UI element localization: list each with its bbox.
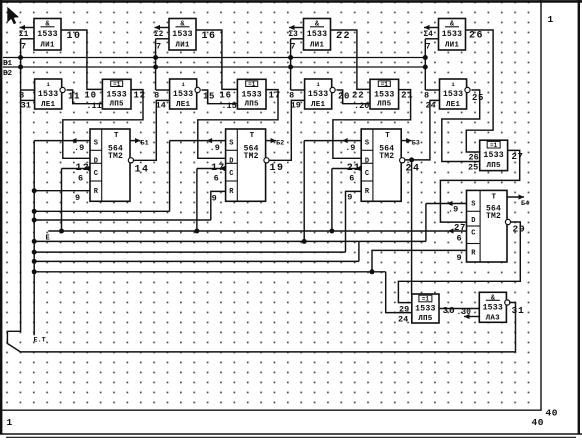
svg-text:14: 14	[156, 101, 166, 111]
wire net 26 (AND4 out to XOR4)	[466, 30, 494, 152]
XOR gate DD9.1 (1533 ЛП5)	[102, 79, 131, 109]
svg-text:10: 10	[67, 31, 82, 42]
svg-text:=1: =1	[490, 142, 498, 149]
junction dist 6	[32, 269, 37, 274]
svg-text:24: 24	[398, 315, 408, 325]
svg-text:Б3: Б3	[412, 140, 420, 148]
svg-text:.9: .9	[448, 204, 458, 214]
window bottom separator	[0, 433, 582, 435]
svg-text:1533: 1533	[106, 91, 126, 100]
svg-text:6: 6	[78, 174, 84, 184]
junction net 6 col3	[329, 229, 334, 234]
wire net 22 (AND3 out to XOR3)	[331, 30, 371, 89]
svg-text:6: 6	[457, 234, 463, 244]
svg-text:.30: .30	[457, 308, 472, 317]
svg-text:C: C	[365, 170, 369, 178]
svg-text:Б4: Б4	[521, 200, 529, 208]
svg-text:7: 7	[291, 42, 297, 52]
svg-text:31: 31	[512, 305, 525, 316]
svg-text:8: 8	[424, 91, 430, 101]
svg-text:В1: В1	[3, 60, 13, 68]
svg-text:Σ1: Σ1	[19, 31, 29, 39]
svg-text:ТМ2: ТМ2	[244, 152, 259, 161]
svg-text:=1: =1	[248, 81, 256, 88]
svg-text:ЛИ1: ЛИ1	[445, 42, 460, 50]
window left border	[0, 0, 2, 434]
D flip-flop DD5 (564 ТМ2)	[90, 129, 130, 201]
XOR gate DD11.1 (1533 ЛП5)	[370, 79, 399, 109]
junction S3 tap	[302, 239, 307, 244]
wire to NOR1 pin 8	[21, 89, 35, 91]
wire net 6 (E) horizontal	[46, 228, 467, 242]
NOR gate DD2.1 (1533 ЛЕ1)	[35, 79, 62, 109]
svg-text:1533: 1533	[37, 30, 57, 39]
svg-text:1533: 1533	[173, 90, 193, 99]
svg-text:Е: Е	[46, 234, 50, 242]
wire net 9 link vertical	[358, 241, 360, 261]
wire pin 7 of AND 2	[156, 39, 169, 52]
wire to NOR2 pin 8	[156, 89, 170, 91]
wire net 16 (AND2 out to XOR2)	[196, 30, 237, 89]
svg-text:ЛИ1: ЛИ1	[40, 42, 55, 50]
wire net 6 C input FF3	[332, 166, 361, 184]
wire net 6 vertical col2	[196, 169, 198, 232]
junction dist 1	[32, 209, 37, 214]
wire net 11 (NOR1 out to XOR1)	[67, 90, 103, 104]
wire pin 7 of AND 3	[291, 39, 304, 52]
svg-text:40: 40	[546, 408, 558, 419]
svg-text:ЛЕ1: ЛЕ1	[446, 101, 461, 109]
wire net 12 (XOR1 out to FF1 D)	[63, 90, 143, 159]
window top border	[0, 0, 582, 3]
svg-text:ЛИ1: ЛИ1	[310, 42, 325, 50]
wire net 9 R input FF4	[372, 250, 467, 271]
svg-text:Σ2: Σ2	[154, 31, 164, 39]
svg-text:S: S	[229, 140, 233, 148]
wire net 21 (XOR3 out to FF3 D)	[333, 90, 411, 159]
svg-text:16: 16	[202, 31, 217, 42]
inversion bubble FF1	[128, 158, 133, 163]
wire net 9 vertical S2	[169, 141, 171, 212]
wire net 6 vertical col1	[61, 169, 63, 232]
svg-text:16: 16	[219, 91, 231, 101]
svg-text:9: 9	[457, 253, 463, 263]
port arrow Σ1 on AND input pin 1	[19, 25, 34, 39]
svg-text:29: 29	[513, 224, 526, 235]
svg-text:1533: 1533	[38, 90, 58, 99]
wire net 14 (FF1 invQ to NOR2)	[134, 100, 170, 175]
svg-text:31: 31	[21, 101, 31, 111]
svg-text:8: 8	[289, 91, 295, 101]
svg-text:7: 7	[426, 42, 432, 52]
AND gate DD3.1 (1533 ЛИ1)	[304, 19, 331, 51]
port arrow Б4 (FF4 Q output)	[507, 194, 529, 208]
wire net 24 vertical to XOR BR	[411, 160, 413, 294]
inversion bubble FF2	[264, 158, 269, 163]
wire net 9 R input FF1	[34, 191, 90, 203]
wire net 9 S input FF3	[304, 138, 361, 153]
svg-text:1533: 1533	[308, 90, 328, 99]
svg-text:1533: 1533	[307, 30, 327, 39]
svg-text:S: S	[471, 200, 475, 208]
svg-text:T: T	[114, 132, 119, 140]
junction on bus B2 col 1	[18, 65, 23, 70]
svg-text:1533: 1533	[172, 30, 192, 39]
svg-text:11: 11	[68, 91, 80, 101]
wire net 9 S input FF4	[426, 201, 467, 214]
port arrow Б2 (FF2 Q output)	[266, 138, 285, 148]
svg-text:C: C	[94, 170, 98, 178]
wire net 9 vertical S4	[425, 204, 427, 242]
AND gate DD4.1 (1533 ЛИ1)	[439, 19, 466, 51]
svg-text:.15: .15	[221, 101, 236, 111]
wire net 9 distribution line 4	[34, 251, 345, 253]
svg-text:.9: .9	[74, 143, 84, 153]
junction net 6 col1	[59, 229, 64, 234]
D flip-flop DD7 (564 ТМ2)	[361, 129, 401, 201]
port arrow Σ2 on AND input pin 1	[154, 25, 169, 39]
svg-text:D: D	[471, 217, 475, 225]
port arrow Σ3 on AND input pin 1	[289, 25, 304, 39]
svg-text:1: 1	[548, 14, 554, 25]
junction on bus B1 col 2	[153, 55, 158, 60]
AND gate DD2.1 (1533 ЛИ1)	[169, 19, 196, 51]
svg-text:1533: 1533	[483, 151, 503, 160]
wire net 30 (XOR BR out to NAND)	[439, 305, 479, 316]
svg-text:ЛП5: ЛП5	[418, 315, 433, 323]
svg-text:1533: 1533	[241, 91, 261, 100]
wire net 9 distribution line 5	[34, 260, 359, 262]
port stub .30 on NAND input	[457, 308, 480, 319]
svg-text:19: 19	[291, 101, 301, 111]
svg-text:T: T	[385, 132, 390, 140]
junction on bus B2 col 3	[288, 65, 293, 70]
D flip-flop DD8 (564 ТМ2) col4	[467, 190, 508, 262]
svg-text:ЛП5: ЛП5	[245, 101, 260, 109]
wire net 15 (NOR2 out to XOR2)	[202, 90, 238, 104]
svg-text:ЛП5: ЛП5	[377, 101, 392, 109]
svg-text:C: C	[471, 229, 475, 237]
svg-text:8: 8	[154, 91, 160, 101]
wire net 29 (FF4 invQ to XOR BR)	[398, 222, 525, 303]
svg-text:7: 7	[21, 42, 27, 52]
svg-text:D: D	[229, 157, 233, 165]
port arrow Б3 (FF3 Q output)	[401, 138, 420, 148]
svg-text:ТМ2: ТМ2	[379, 152, 394, 161]
svg-text:9: 9	[212, 194, 218, 204]
wire net 9 R input FF3	[346, 191, 362, 252]
junction on bus B2 col 2	[153, 65, 158, 70]
wire net 9 distribution line 1	[34, 210, 169, 212]
svg-text:T: T	[250, 132, 255, 140]
svg-text:14: 14	[135, 165, 150, 176]
window right border	[578, 0, 580, 434]
XOR gate DD13.1 (1533 ЛП5) bottom right	[412, 294, 439, 323]
wire bus tap column 1	[20, 39, 22, 90]
inversion bubble on NOR 1 output	[60, 87, 65, 92]
horizontal scrollbar top edge	[6, 436, 576, 438]
svg-text:1533: 1533	[374, 91, 394, 100]
junction on bus B1 col 3	[288, 55, 293, 60]
wire net 10 (AND1 out to XOR1)	[61, 30, 102, 89]
wire pin 7 of AND 1	[21, 39, 34, 52]
junction R1	[32, 188, 37, 193]
svg-text:27: 27	[454, 223, 466, 233]
wire net 6 C input FF1	[62, 166, 91, 184]
inversion bubble on NOR 2 output	[195, 87, 200, 92]
wire net 9 S input FF1	[34, 138, 90, 153]
svg-text:D: D	[365, 157, 369, 165]
svg-text:ТМ2: ТМ2	[486, 212, 501, 221]
svg-text:25: 25	[468, 162, 478, 172]
wire net 20 (NOR3 out to XOR3)	[337, 90, 371, 104]
svg-text:T: T	[492, 193, 497, 201]
svg-text:1533: 1533	[415, 305, 435, 314]
svg-text:9: 9	[347, 193, 353, 203]
svg-text:1533: 1533	[443, 90, 463, 99]
NAND gate DD14.1 (1533 ЛА3)	[479, 292, 506, 322]
junction net9 R4 tap	[370, 269, 375, 274]
svg-text:40: 40	[532, 417, 544, 428]
svg-text:Σ4: Σ4	[424, 31, 434, 39]
svg-text:=1: =1	[381, 81, 389, 88]
wire net 24 (FF3 invQ)	[405, 100, 440, 174]
inversion bubble on NOR 3 output	[330, 87, 335, 92]
wire pin 7 of AND 4	[425, 39, 438, 52]
XOR gate DD12.1 (1533 ЛП5) col4	[480, 140, 508, 170]
sheet frame bottom edge	[0, 409, 542, 411]
wire net 17 (XOR2 out to FF2 D)	[198, 90, 278, 159]
svg-text:ЛЕ1: ЛЕ1	[41, 101, 56, 109]
svg-text:ЛП5: ЛП5	[487, 162, 502, 170]
wire bus tap column 4	[424, 39, 426, 90]
svg-text:S: S	[365, 140, 369, 148]
svg-text:Σ3: Σ3	[289, 31, 299, 39]
NOR gate DD5.1 (1533 ЛЕ1)	[440, 79, 467, 109]
svg-text:30: 30	[443, 305, 456, 316]
junction dist 4	[32, 250, 37, 255]
wire net 27 (XOR4 out to FF4 D)	[440, 150, 523, 222]
svg-text:12: 12	[134, 91, 146, 101]
D flip-flop DD6 (564 ТМ2)	[226, 129, 266, 201]
junction on bus B2 col 4	[423, 65, 428, 70]
svg-text:20: 20	[338, 91, 350, 101]
wire net 9 main left vertical (S1 to E.T)	[33, 141, 35, 336]
junction net 6 col2	[194, 229, 199, 234]
svg-text:22: 22	[352, 91, 364, 101]
wire net 9 S input FF2	[170, 138, 226, 153]
svg-text:1533: 1533	[442, 30, 462, 39]
svg-text:ЛЕ1: ЛЕ1	[176, 101, 191, 109]
junction net 24	[409, 157, 414, 162]
svg-text:22: 22	[336, 31, 351, 42]
svg-text:D: D	[94, 157, 98, 165]
svg-text:В2: В2	[3, 70, 13, 78]
svg-text:ЛП5: ЛП5	[110, 101, 125, 109]
wire net 25 (NOR4 out to XOR4)	[442, 90, 484, 162]
svg-text:9: 9	[75, 193, 81, 203]
bus B2 wire	[3, 66, 425, 68]
wire net 9 vertical S3	[303, 141, 305, 242]
svg-text:.9: .9	[345, 143, 355, 153]
inversion bubble FF3	[400, 158, 405, 163]
AND gate DD1.1 (1533 ЛИ1)	[34, 19, 61, 51]
wire net 31 feedback (left vertical + bottom run)	[7, 90, 515, 352]
svg-text:Б2: Б2	[276, 140, 284, 148]
junction on bus B1 col 1	[18, 55, 23, 60]
port arrow Σ4 on AND input pin 1	[424, 25, 439, 39]
wire net 19 (FF2 invQ to NOR3)	[269, 100, 305, 174]
svg-text:1: 1	[7, 417, 13, 428]
junction on bus B1 col 4	[423, 55, 428, 60]
svg-text:ЛЕ1: ЛЕ1	[311, 101, 326, 109]
junction dist 5	[32, 259, 37, 264]
wire net 6 C input FF2	[197, 166, 226, 184]
svg-text:.20: .20	[354, 101, 369, 111]
wire net 9 R input FF2	[211, 191, 226, 220]
sheet frame right edge	[540, 0, 542, 410]
junction dist 2	[32, 218, 37, 223]
port arrow Б1 (FF1 Q output)	[130, 138, 149, 148]
svg-text:27: 27	[512, 152, 524, 162]
svg-text:21: 21	[401, 91, 413, 101]
wire net 6 vertical col3	[331, 169, 333, 232]
svg-text:26: 26	[469, 31, 484, 42]
svg-text:.9: .9	[210, 143, 220, 153]
wire net 9 to XOR BR lower pin	[386, 272, 412, 313]
XOR gate DD10.1 (1533 ЛП5)	[237, 79, 266, 109]
svg-text:1533: 1533	[483, 303, 503, 312]
wire bus tap column 2	[155, 39, 157, 90]
bus B1 wire	[3, 57, 425, 59]
svg-text:ТМ2: ТМ2	[108, 152, 123, 161]
svg-text:C: C	[229, 170, 233, 178]
svg-text:ЛИ1: ЛИ1	[175, 42, 190, 50]
svg-text:17: 17	[269, 91, 281, 101]
svg-text:6: 6	[214, 174, 220, 184]
wire to NOR4 pin 8	[425, 89, 439, 91]
wire net 9 distribution line 3	[34, 240, 426, 242]
svg-text:19: 19	[270, 163, 285, 174]
wire to NOR3 pin 8	[291, 89, 305, 91]
svg-text:Б1: Б1	[141, 140, 149, 148]
wire net 9 distribution line 2	[34, 219, 211, 221]
svg-text:15: 15	[203, 91, 215, 101]
svg-text:24: 24	[406, 164, 421, 175]
svg-text:.11: .11	[86, 101, 101, 111]
svg-text:ЛА3: ЛА3	[486, 314, 501, 322]
wire bus tap column 3	[290, 39, 292, 90]
junction dist 3	[32, 239, 37, 244]
svg-text:Е.Т: Е.Т	[34, 337, 46, 345]
NOR gate DD3.1 (1533 ЛЕ1)	[170, 79, 197, 109]
svg-text:7: 7	[156, 42, 162, 52]
svg-text:=1: =1	[422, 296, 430, 303]
svg-text:S: S	[94, 140, 98, 148]
wire NOR1 lower input pin 31	[21, 99, 35, 101]
svg-text:6: 6	[349, 174, 355, 184]
wire net 9 distribution line 6	[34, 271, 386, 273]
inversion bubble on NAND output	[505, 300, 510, 305]
NOR gate DD4.1 (1533 ЛЕ1)	[305, 79, 332, 109]
svg-text:25: 25	[472, 93, 484, 103]
svg-text:=1: =1	[113, 81, 121, 88]
mouse cursor	[7, 7, 19, 25]
inversion bubble FF4	[505, 219, 510, 224]
inversion bubble on NOR 4 output	[465, 87, 470, 92]
svg-text:10: 10	[84, 91, 96, 101]
